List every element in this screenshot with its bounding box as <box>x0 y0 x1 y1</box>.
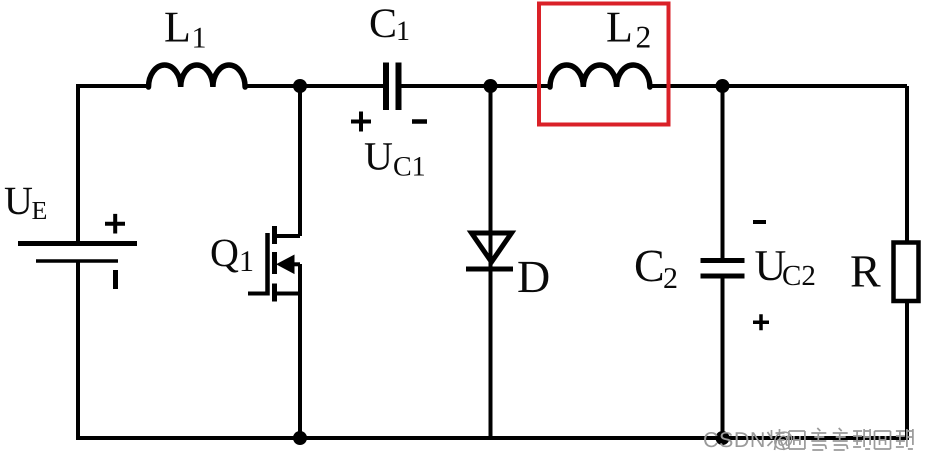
diode D triangle <box>472 233 512 262</box>
diode D cathode bar <box>466 267 513 272</box>
svg-text:1: 1 <box>239 245 254 278</box>
inductor L2 <box>550 65 650 87</box>
battery minus tick <box>113 270 118 289</box>
C1 minus sign <box>412 119 427 124</box>
svg-text:L: L <box>164 3 191 52</box>
node D2: junction bottom of Q1 <box>293 431 307 445</box>
wire: top rail between L1 and C1 <box>243 84 384 88</box>
svg-text:E: E <box>32 196 48 225</box>
node E: junction bottom of C2 <box>716 431 730 445</box>
wire: diode branch vertical <box>489 86 493 438</box>
wire: top rail left segment <box>78 84 150 88</box>
svg-text:2: 2 <box>663 262 678 295</box>
capacitor C2 top plate <box>701 258 745 263</box>
svg-text:C1: C1 <box>393 152 426 183</box>
svg-text:Q: Q <box>210 230 239 275</box>
wire: Q1 source lead to bottom rail <box>298 264 302 438</box>
wire: left rail lower (source bottom lead) <box>76 261 80 438</box>
svg-text:U: U <box>364 134 393 179</box>
wire: C2 branch lower lead <box>721 277 725 438</box>
red highlight box around L2 <box>539 4 669 125</box>
battery plus sign <box>105 214 125 234</box>
svg-text:1: 1 <box>192 22 207 55</box>
svg-text:2: 2 <box>636 20 652 55</box>
wire: top rail between L2 and right edge <box>648 84 907 88</box>
C2 plus sign <box>753 314 769 330</box>
C1 plus sign <box>351 112 371 132</box>
svg-text:C2: C2 <box>782 260 816 292</box>
wire: right rail lower (R bottom lead) <box>905 300 909 440</box>
watermark pseudo CJK glyphs <box>768 428 913 450</box>
capacitor C1 right plate <box>396 63 402 111</box>
inductor L1 <box>149 65 246 87</box>
node C: junction top of C2 <box>716 79 730 93</box>
resistor R <box>894 243 919 302</box>
svg-text:C: C <box>634 240 665 291</box>
node A: junction top of Q1 <box>293 79 307 93</box>
C2 minus sign <box>753 220 766 224</box>
node B: junction top of diode <box>484 79 498 93</box>
capacitor C2 bottom plate <box>701 274 745 279</box>
wire: C2 branch upper lead <box>721 86 725 259</box>
svg-text:R: R <box>850 246 881 297</box>
wire: Q1 drain lead from top rail <box>298 86 302 236</box>
wire: left rail upper (source top lead) <box>76 84 80 241</box>
wire: right rail upper (R top lead) <box>905 86 909 243</box>
svg-text:1: 1 <box>396 16 410 47</box>
svg-text:D: D <box>517 251 550 302</box>
capacitor C1 left plate <box>383 63 389 111</box>
transistor Q1 (MOSFET) <box>248 226 300 302</box>
svg-text:C: C <box>369 1 397 47</box>
wire: top rail between C1 and L2 <box>401 84 552 88</box>
battery UE bottom plate (-) <box>36 259 118 263</box>
battery UE top plate (+) <box>18 241 137 246</box>
svg-text:L: L <box>606 2 633 51</box>
wire: bottom rail <box>76 436 909 440</box>
svg-text:U: U <box>4 178 33 223</box>
